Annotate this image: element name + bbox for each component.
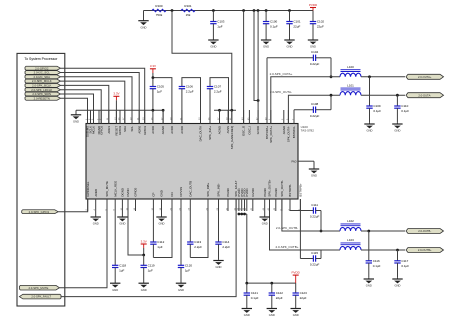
svg-text:CPVSS: CPVSS — [179, 187, 183, 197]
U100 top pin labels — [86, 125, 297, 149]
ground below C122 — [267, 308, 277, 318]
junction PVDD tie a — [238, 213, 241, 216]
wire net 2.0-SPK_OUTA+ — [271, 77, 340, 124]
ground below C103 — [208, 38, 218, 49]
port 2.0-OUTA+ — [406, 74, 444, 79]
capacitor C102 — [310, 11, 325, 39]
svg-text:OSC_O: OSC_O — [242, 125, 246, 136]
wire analog ground rail — [76, 109, 163, 111]
capacitor C123 — [293, 283, 308, 307]
svg-text:2.0-OUTB+: 2.0-OUTB+ — [418, 248, 432, 252]
net label 2.0-SPK_OUTB- — [276, 226, 298, 230]
wire net C104 to OUTA+ — [330, 58, 332, 77]
svg-text:C112: C112 — [157, 240, 164, 244]
svg-text:BSTRPB+: BSTRPB+ — [299, 183, 303, 197]
port 2.0-SPK_LRCLK — [25, 88, 61, 92]
inductor L100 — [340, 65, 361, 77]
port 2.0-SPK_GPIO1 — [22, 210, 59, 214]
ground below C110 — [392, 123, 402, 133]
wire net 2.0-SPK_OUTB+ — [270, 199, 341, 250]
wire gnd rail stub to pin 163.1 — [162, 110, 164, 123]
svg-text:AVDD: AVDD — [170, 126, 174, 134]
capacitor C120 — [178, 211, 193, 283]
wire net BST_A- down to pin — [293, 110, 295, 124]
wire net 2.0-SPK_MCLK — [61, 81, 125, 123]
svg-text:0.1µF: 0.1µF — [373, 109, 381, 113]
svg-text:GND: GND — [216, 265, 222, 269]
svg-text:C100: C100 — [270, 20, 278, 24]
svg-text:750k: 750k — [156, 13, 163, 17]
wire net 2.0-I2C_SDA — [61, 77, 133, 124]
junction gnd rail pin 163.1 — [162, 109, 165, 112]
svg-text:2.2µF: 2.2µF — [186, 90, 194, 94]
svg-text:3.3V: 3.3V — [141, 239, 147, 243]
wire net PVDD rail — [247, 282, 296, 284]
inductor L102 — [340, 219, 361, 231]
capacitor C116 — [366, 231, 381, 278]
wire net 2.0-SPK_LRCLK — [61, 90, 102, 124]
junction rail vert 243.6 — [242, 9, 245, 12]
svg-text:ADR1: ADR1 — [107, 126, 111, 134]
svg-text:C104: C104 — [311, 50, 319, 54]
ground below pin 264.7 — [260, 211, 270, 226]
svg-text:PVDD: PVDD — [292, 271, 301, 275]
svg-text:22µF: 22µF — [276, 296, 283, 300]
svg-text:GVDD: GVDD — [256, 126, 260, 134]
port 2.0-SPK_MCLK — [25, 79, 61, 83]
svg-text:C114: C114 — [222, 240, 229, 244]
svg-text:GND: GND — [367, 129, 373, 133]
svg-text:2.0-RESETN: 2.0-RESETN — [34, 96, 50, 100]
junction jog joins vert 258.1 — [257, 99, 260, 102]
wire net BST_B- stub — [289, 199, 291, 211]
svg-text:2.0-SPK_FAULT: 2.0-SPK_FAULT — [31, 295, 51, 299]
junction C104 joins OUTA+ — [330, 75, 333, 78]
svg-text:GND: GND — [141, 25, 147, 29]
svg-text:GND: GND — [395, 284, 401, 288]
capacitor C119 — [141, 255, 155, 283]
svg-text:R100: R100 — [155, 4, 163, 8]
svg-text:1µF: 1µF — [217, 25, 222, 29]
junction R101-C103 — [212, 9, 215, 12]
ground below pin 95.7 — [91, 211, 101, 226]
capacitor C112 — [150, 211, 164, 258]
svg-text:SPK_OUTA+: SPK_OUTA+ — [269, 126, 273, 143]
svg-text:ADR0: ADR0 — [94, 188, 98, 196]
svg-text:L101: L101 — [347, 83, 354, 87]
svg-text:C109: C109 — [373, 104, 381, 108]
svg-text:1µF: 1µF — [148, 268, 153, 272]
svg-text:C113: C113 — [194, 240, 201, 244]
svg-text:PVDD: PVDD — [245, 189, 249, 197]
svg-text:C117: C117 — [401, 259, 408, 263]
svg-text:3.3V: 3.3V — [150, 64, 156, 68]
capacitor C114 — [215, 211, 230, 260]
svg-text:PVDD: PVDD — [309, 3, 318, 7]
wire net rail branch jog — [254, 11, 258, 101]
svg-text:PGND: PGND — [274, 188, 278, 196]
capacitor C106 — [179, 80, 194, 124]
svg-text:MCLK_REG: MCLK_REG — [113, 180, 117, 197]
svg-text:C107: C107 — [214, 85, 222, 89]
port 2.0-SPK_BCLK — [25, 83, 61, 87]
svg-text:0.1µF: 0.1µF — [373, 264, 381, 268]
svg-text:GND: GND — [366, 284, 372, 288]
capacitor C105 — [150, 78, 165, 111]
capacitor C115 (bootstrap B+) — [300, 251, 321, 267]
svg-text:C122: C122 — [276, 291, 284, 295]
svg-text:2.0-SPK_MUTE: 2.0-SPK_MUTE — [28, 286, 48, 290]
junction 3.3V DVDD junction — [142, 254, 145, 257]
capacitor C100 — [263, 11, 278, 39]
svg-text:2.0-SPK_OUTB+: 2.0-SPK_OUTB+ — [276, 245, 299, 249]
junction OUTB- divider — [367, 230, 370, 233]
port 2.0-SPK_FAULT — [19, 294, 61, 299]
connector box To System Processor — [17, 53, 65, 306]
svg-text:2.0-SPK_OUTB-: 2.0-SPK_OUTB- — [276, 226, 298, 230]
junction rail vert 254 — [253, 9, 256, 12]
svg-text:SPK_OUTB-: SPK_OUTB- — [280, 180, 284, 196]
junction 3.3V junction — [152, 76, 155, 79]
svg-text:15k: 15k — [186, 13, 191, 17]
capacitor C113 — [187, 211, 202, 258]
wire net 2.0-I2C_SCL — [61, 73, 140, 124]
svg-text:GND: GND — [293, 313, 299, 317]
svg-text:AVDD: AVDD — [180, 126, 184, 134]
wire net C112 return loop — [153, 199, 172, 258]
svg-text:GND: GND — [262, 222, 268, 226]
svg-text:GND: GND — [141, 288, 147, 292]
wire top rail PVDD — [144, 10, 314, 12]
net label 2.0-SPK_OUTB+ — [276, 245, 299, 249]
svg-text:PAD: PAD — [291, 159, 296, 163]
svg-text:GVDD: GVDD — [251, 188, 255, 196]
capacitor C104 (bootstrap A+) — [267, 50, 331, 66]
svg-text:AVDD: AVDD — [151, 126, 155, 134]
wire net C115 up to OUTB+ — [320, 250, 322, 259]
junction rail-C100 — [265, 9, 268, 12]
resistor R101 — [181, 4, 195, 17]
svg-text:2.2µF: 2.2µF — [222, 245, 230, 249]
svg-text:C121: C121 — [251, 291, 259, 295]
svg-text:PGND: PGND — [263, 188, 267, 196]
svg-text:R101: R101 — [184, 4, 192, 8]
svg-text:DAC_OUTA: DAC_OUTA — [199, 126, 203, 142]
wire C107 top loop — [210, 78, 229, 124]
junction rail-vert258 — [257, 9, 260, 12]
svg-text:C118: C118 — [119, 263, 126, 267]
ground below pin 122.4 — [117, 211, 127, 226]
svg-text:SPK_OUTB+: SPK_OUTB+ — [268, 179, 272, 196]
svg-text:GND: GND — [178, 288, 184, 292]
U100 top pin stubs with pin numbers — [86, 110, 295, 124]
wire net 2.0-SPK_OUTA- — [288, 95, 340, 123]
inductor L101 — [340, 83, 361, 95]
junction PVDD rail C121 — [245, 282, 248, 285]
capacitor C103 — [210, 11, 225, 39]
svg-text:SPK_OUTA-: SPK_OUTA- — [287, 126, 291, 142]
junction tie2 a — [218, 109, 221, 112]
wire net PVDD down — [246, 214, 248, 283]
svg-text:22µF: 22µF — [293, 25, 300, 29]
ground below C118 — [110, 283, 120, 292]
wire net C111 down to OUTB- — [320, 211, 322, 232]
wire net 3.3V DVDD jog — [128, 199, 144, 255]
port 2.0-SPK_SDIN — [25, 92, 61, 96]
capacitor C117 — [394, 250, 409, 278]
svg-text:C119: C119 — [148, 263, 155, 267]
svg-text:To System Processor: To System Processor — [24, 57, 58, 61]
port 2.0-RESETN — [25, 96, 61, 100]
wire net C113 return loop — [190, 199, 208, 258]
junction OUTA+ divider — [368, 75, 371, 78]
capacitor C109 — [366, 77, 381, 123]
svg-text:1µF: 1µF — [119, 268, 124, 272]
svg-text:SPK_INB-: SPK_INB- — [217, 183, 221, 196]
svg-text:GPIO3: GPIO3 — [118, 126, 122, 135]
wire net BST_A+ down to pin — [266, 58, 268, 124]
svg-text:CN: CN — [170, 192, 174, 196]
svg-text:2.0-OUTA-: 2.0-OUTA- — [418, 93, 431, 97]
port 2.0-I2C_SCL — [25, 71, 61, 75]
port 2.0-I2C_SDA — [25, 75, 61, 79]
capacitor C107 — [207, 80, 222, 124]
svg-text:BSTRPB-: BSTRPB- — [288, 184, 292, 197]
svg-text:AGND: AGND — [218, 126, 222, 134]
svg-text:ADR0: ADR0 — [137, 126, 141, 134]
wire net OUTA- after L101 — [361, 94, 405, 96]
svg-text:C116: C116 — [373, 259, 380, 263]
junction tie2 b — [230, 109, 233, 112]
wire net 3.3V flag B to pin — [115, 100, 117, 123]
port 2.0-OUTA- — [406, 93, 444, 98]
port 2.0-SPK_MUTE — [19, 285, 59, 290]
port 2.0-OUTB+ — [406, 248, 444, 253]
svg-text:2.0-SPK_OUTA-: 2.0-SPK_OUTA- — [270, 90, 292, 94]
wire net 3.3V to pin 171.9 — [153, 73, 172, 124]
svg-text:C105: C105 — [157, 85, 165, 89]
wire net PAD to ground — [298, 160, 314, 162]
wire analog ground tie 2 — [214, 109, 236, 111]
svg-text:MCLK: MCLK — [92, 126, 96, 134]
svg-text:3.3V: 3.3V — [113, 92, 119, 96]
ground below C123 — [291, 308, 301, 318]
svg-text:C101: C101 — [293, 20, 301, 24]
svg-text:SCL: SCL — [130, 126, 134, 132]
junction C105 to gnd rail — [152, 109, 155, 112]
svg-text:GND: GND — [112, 288, 118, 292]
svg-text:0.22µF: 0.22µF — [310, 62, 320, 66]
port 2.0-OUTB- — [406, 229, 444, 234]
power flag 3.3V (DVDD) — [141, 239, 147, 248]
ground below C114 — [213, 260, 223, 269]
svg-text:C115: C115 — [311, 251, 318, 255]
svg-text:22µF: 22µF — [300, 296, 307, 300]
wire net rail branch pin 243.6 — [243, 11, 245, 124]
ground below C101 — [284, 38, 294, 49]
svg-text:C120: C120 — [185, 263, 193, 267]
op-amp U100 TAS-5782 body — [86, 124, 314, 200]
wire net 2.0-SPK_GPIO1 — [58, 199, 87, 212]
wire net BST_B+ down from pin — [299, 199, 301, 259]
svg-text:C110: C110 — [401, 104, 408, 108]
svg-text:TAS-5782: TAS-5782 — [301, 129, 315, 133]
ground below C120 — [176, 283, 186, 292]
svg-text:GND: GND — [210, 45, 216, 49]
svg-text:SPK_INA+: SPK_INA+ — [208, 126, 212, 140]
capacitor C110 — [394, 95, 409, 123]
svg-text:2.2µF: 2.2µF — [214, 90, 222, 94]
svg-text:0.22µF: 0.22µF — [310, 263, 320, 267]
svg-text:BSTRPA-: BSTRPA- — [292, 126, 296, 138]
ground below C102 — [308, 38, 318, 49]
svg-text:22µF: 22µF — [317, 25, 324, 29]
svg-text:GND: GND — [263, 45, 269, 49]
capacitor C122 — [269, 283, 284, 307]
ground below C121 — [242, 308, 252, 318]
svg-text:C123: C123 — [300, 291, 308, 295]
svg-text:0.22µF: 0.22µF — [310, 215, 320, 219]
wire net OUTB+ after L103 — [361, 249, 405, 251]
svg-text:L102: L102 — [347, 219, 354, 223]
svg-text:GND: GND — [394, 129, 400, 133]
power flag PVDD bottom — [292, 271, 301, 284]
net label 2.0-SPK_OUTA+ — [270, 72, 293, 76]
capacitor C111 (bootstrap B-) — [290, 203, 321, 219]
resistor R100 — [152, 4, 166, 17]
svg-text:GND: GND — [119, 222, 125, 226]
ground below C117 — [392, 278, 402, 288]
U100 bottom pin stubs with pin numbers — [86, 199, 301, 211]
wire net 3.3V flag to C119 — [143, 248, 145, 255]
ground below C116 — [364, 278, 374, 288]
svg-text:GPIO5: GPIO5 — [134, 187, 138, 196]
svg-text:GND: GND — [93, 222, 99, 226]
junction C108 joins OUTA- — [330, 94, 333, 97]
svg-text:GND: GND — [73, 119, 79, 123]
ground rail left — [71, 110, 81, 123]
junction PVDD rail C122 — [270, 282, 273, 285]
U100 bottom pin labels — [86, 179, 303, 196]
wire net OUTB- after L102 — [361, 230, 405, 232]
ground below C109 — [364, 123, 374, 133]
wire net 2.0-SPK_OUTB- — [282, 199, 340, 231]
svg-text:0.22µF: 0.22µF — [310, 114, 320, 118]
svg-text:OSC_I: OSC_I — [248, 126, 252, 135]
inductor L103 — [340, 238, 361, 250]
ground below R100 left — [138, 11, 148, 30]
svg-text:GND: GND — [311, 174, 317, 178]
svg-text:GPIO1: GPIO1 — [143, 126, 147, 135]
power flag 3.3V (GPIO pin) — [113, 92, 119, 101]
svg-text:DAC_OUTB: DAC_OUTB — [188, 181, 192, 197]
svg-text:GND: GND — [159, 222, 165, 226]
junction OUTA- divider — [396, 94, 399, 97]
wire net C108 up to OUTA- — [330, 95, 332, 110]
svg-text:0.1µF: 0.1µF — [270, 25, 278, 29]
svg-text:C108: C108 — [311, 102, 319, 106]
capacitor C108 (bootstrap A-) — [294, 102, 331, 118]
svg-text:2.0-OUTA+: 2.0-OUTA+ — [418, 75, 432, 79]
svg-text:GND: GND — [244, 313, 250, 317]
capacitor C118 — [112, 211, 126, 283]
svg-text:PGND: PGND — [226, 188, 230, 196]
wire net 2.0-SPK_SDIN — [61, 94, 94, 124]
wire net 2.0-GPIO2 — [61, 68, 145, 123]
U100 PAD pin label — [291, 159, 296, 163]
wire net 2.0-SPK_FAULT — [61, 199, 236, 297]
svg-text:0.1µF: 0.1µF — [251, 296, 259, 300]
svg-text:AGND: AGND — [282, 126, 286, 134]
svg-text:SPK_GAIN/FREQ: SPK_GAIN/FREQ — [230, 125, 234, 149]
svg-text:L100: L100 — [347, 65, 354, 69]
ground below C119 — [139, 283, 149, 292]
svg-text:DGND: DGND — [121, 188, 125, 197]
svg-text:1µF: 1µF — [157, 90, 162, 94]
svg-text:GPIO2: GPIO2 — [99, 126, 103, 135]
svg-text:DVDD: DVDD — [126, 188, 130, 196]
svg-text:CP: CP — [152, 193, 156, 197]
wire net PVDD pin tie — [239, 213, 247, 215]
power flag PVDD top — [309, 3, 318, 11]
wire net 2.0-SPK_MUTE — [59, 199, 107, 288]
svg-text:SPK_INB+: SPK_INB+ — [206, 182, 210, 196]
svg-text:C103: C103 — [217, 20, 225, 24]
junction PVDD tie b — [240, 213, 243, 216]
junction OUTB+ divider — [396, 249, 399, 252]
svg-text:C111: C111 — [311, 203, 318, 207]
ground below C100 — [261, 38, 271, 49]
ground at PAD — [309, 161, 319, 177]
wire net R divider to U100 — [172, 11, 232, 124]
svg-text:L103: L103 — [347, 238, 354, 242]
svg-text:1µF: 1µF — [185, 268, 190, 272]
junction PVDD tie c — [243, 213, 246, 216]
port 2.0-GPIO2 — [25, 66, 61, 70]
svg-text:GND: GND — [160, 190, 164, 196]
power flag 3.3V (AVDD) — [150, 64, 156, 73]
svg-text:0.1µF: 0.1µF — [401, 264, 409, 268]
wire net 2.0-SPK_BCLK — [61, 85, 109, 123]
net label 2.0-SPK_OUTA- — [270, 90, 292, 94]
junction C111 joins OUTB- — [320, 230, 323, 233]
svg-text:2.0-OUTB-: 2.0-OUTB- — [418, 229, 431, 233]
junction R100-R101 — [171, 9, 174, 12]
svg-text:2.0-SPK_GPIO1: 2.0-SPK_GPIO1 — [29, 210, 50, 214]
svg-text:GND: GND — [269, 313, 275, 317]
wire net rail branch pin 258.1 — [257, 11, 259, 124]
svg-text:GND: GND — [310, 45, 316, 49]
svg-text:SPK_MUTE: SPK_MUTE — [105, 181, 109, 197]
wire net 2.0-RESETN — [61, 98, 88, 123]
svg-text:1µF: 1µF — [157, 245, 162, 249]
wire net OUTA+ after L100 — [361, 76, 405, 78]
svg-text:C102: C102 — [317, 20, 325, 24]
svg-text:2.0-SPK_OUTA+: 2.0-SPK_OUTA+ — [270, 72, 293, 76]
svg-text:2.2µF: 2.2µF — [194, 245, 202, 249]
svg-text:C106: C106 — [186, 85, 194, 89]
svg-text:0.1µF: 0.1µF — [401, 109, 409, 113]
capacitor C121 — [244, 283, 259, 307]
svg-text:AGND: AGND — [161, 126, 165, 134]
wire C106 top loop — [182, 78, 201, 124]
svg-text:GND: GND — [287, 45, 293, 49]
svg-text:SDA: SDA — [123, 126, 127, 132]
capacitor C101 — [286, 11, 301, 39]
junction rail-C101 — [288, 9, 291, 12]
ground below pin 161.5 — [156, 211, 166, 226]
svg-text:GPIO0/SEL: GPIO0/SEL — [86, 181, 90, 196]
